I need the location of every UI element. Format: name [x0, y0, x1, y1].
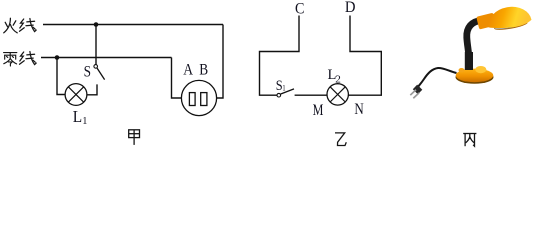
lamp L2	[327, 84, 348, 105]
switch S blade (open)	[97, 68, 105, 80]
switch S pivot contact	[94, 65, 98, 69]
svg-text:L: L	[73, 107, 82, 126]
wire switch S1 to lamp L2	[295, 94, 327, 96]
label 乙 (figure yi)	[335, 133, 346, 146]
switch S1 pivot contact	[277, 93, 281, 97]
wire lamp L2 right up to terminal D	[348, 16, 381, 96]
label 丙 (figure bing)	[463, 134, 476, 147]
svg-text:B: B	[199, 62, 208, 79]
wire neutral junction down and to lamp L1	[57, 58, 65, 95]
switch S1 blade (open)	[281, 89, 294, 94]
desk lamp base button small	[459, 68, 465, 72]
label 甲 (figure jia)	[129, 130, 140, 145]
label S1	[276, 78, 286, 94]
wire live end down to socket right terminal	[217, 25, 223, 99]
wire lamp L1 to switch lower terminal	[87, 84, 97, 94]
svg-text:N: N	[354, 101, 363, 118]
wire from terminal C down-left to switch S1	[260, 16, 300, 96]
desk lamp head group	[486, 3, 533, 32]
desk lamp base	[456, 69, 494, 83]
socket slot B (right)	[201, 93, 207, 106]
desk lamp neck connector	[476, 13, 496, 30]
label L2	[328, 67, 341, 85]
svg-text:S: S	[84, 63, 91, 80]
wire live (top horizontal)	[43, 24, 223, 26]
svg-text:2: 2	[335, 73, 341, 85]
svg-text:C: C	[295, 0, 304, 17]
desk lamp plug body	[413, 85, 423, 95]
desk lamp plug prongs	[410, 90, 419, 98]
node junction on live wire	[94, 22, 99, 27]
svg-text:A: A	[183, 62, 193, 79]
desk lamp gooseneck arm	[467, 20, 482, 65]
svg-text:1: 1	[282, 83, 285, 93]
node junction on neutral wire	[55, 55, 60, 60]
socket slot A (left)	[189, 93, 195, 106]
svg-text:M: M	[313, 102, 324, 119]
label L1	[73, 107, 88, 127]
lamp L1	[65, 84, 87, 106]
socket outlet body	[181, 80, 216, 115]
label net 火线 (live wire)	[4, 18, 36, 33]
wire neutral end down to socket left terminal	[172, 58, 182, 99]
desk lamp base shadow rim	[456, 71, 494, 84]
desk lamp power cord	[417, 68, 456, 88]
wire neutral (second horizontal)	[41, 57, 172, 59]
svg-text:D: D	[345, 0, 356, 16]
label net 零线 (neutral wire)	[4, 52, 37, 67]
svg-text:1: 1	[82, 115, 87, 127]
desk lamp base button large	[475, 66, 486, 73]
wire from live junction down to switch S	[95, 25, 97, 65]
